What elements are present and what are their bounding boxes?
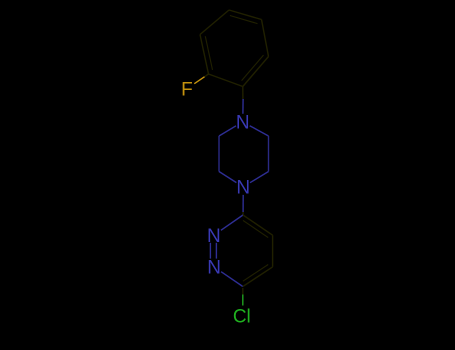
benzene ring: inner double line Cd=Ce [230, 16, 258, 24]
piperazine: bond Ntop-UR (blue) [250, 126, 269, 136]
benzene ring: inner double line Cb=Cc [205, 36, 212, 70]
bond C-F (carbon half, olive) [205, 74, 209, 77]
svg-text:N: N [207, 226, 221, 247]
bond Nbot-C6 (carbon stub) [242, 212, 244, 215]
benzene ring: bond Cf-Ca [243, 57, 269, 87]
pyridazine: bond N2-C3 (blue) [221, 272, 243, 287]
piperazine: bond Nbot-LL (blue) [219, 172, 236, 183]
benzene ring: bond Cc-Cd [200, 10, 229, 35]
benzene ring: inner double line Cf=Ca [242, 55, 264, 81]
pyridazine: N1=N2 double bond left line [209, 243, 211, 259]
bond C3-Cl (chlorine half, green) [242, 295, 244, 306]
pyridazine: bond C6-N1 (blue) [221, 215, 243, 230]
bond C-F (fluorine half, gold) [194, 77, 204, 84]
bond Ca-N1pip (carbon half, olive) [242, 87, 244, 100]
pyridazine: bond C5-C4 (carbon) [272, 235, 274, 267]
bond C3-Cl (carbon half, olive) [242, 288, 244, 295]
svg-text:F: F [181, 80, 193, 101]
pyridazine: inner double line C6=C5 [243, 220, 268, 237]
svg-text:N: N [207, 258, 221, 279]
benzene ring: bond Cd-Ce [229, 10, 262, 20]
svg-text:Cl: Cl [233, 307, 251, 328]
pyridazine: bond C6-C5 (carbon) [243, 215, 273, 235]
benzene ring: bond Ce-Cf [262, 20, 269, 57]
pyridazine: N1=N2 double bond right line [215, 243, 217, 259]
piperazine: bond Ntop-UL (blue) [219, 126, 236, 136]
bond Nbot-C6 (blue) [242, 195, 244, 212]
bond Ca-N1pip (nitrogen half, blue) [242, 99, 244, 114]
piperazine: bond UR-LR (right vertical, carbon) [268, 136, 270, 172]
benzene ring: bond Cb-Cc [200, 35, 209, 75]
piperazine: bond UL-LL (left vertical, carbon) [218, 136, 220, 172]
svg-text:N: N [236, 112, 250, 133]
piperazine: bond Nbot-LR (blue) [250, 172, 269, 183]
pyridazine: inner double line C4=C3 [243, 265, 268, 282]
benzene ring: bond Ca-Cb [209, 74, 243, 87]
pyridazine: bond C4-C3 (carbon) [243, 267, 273, 287]
